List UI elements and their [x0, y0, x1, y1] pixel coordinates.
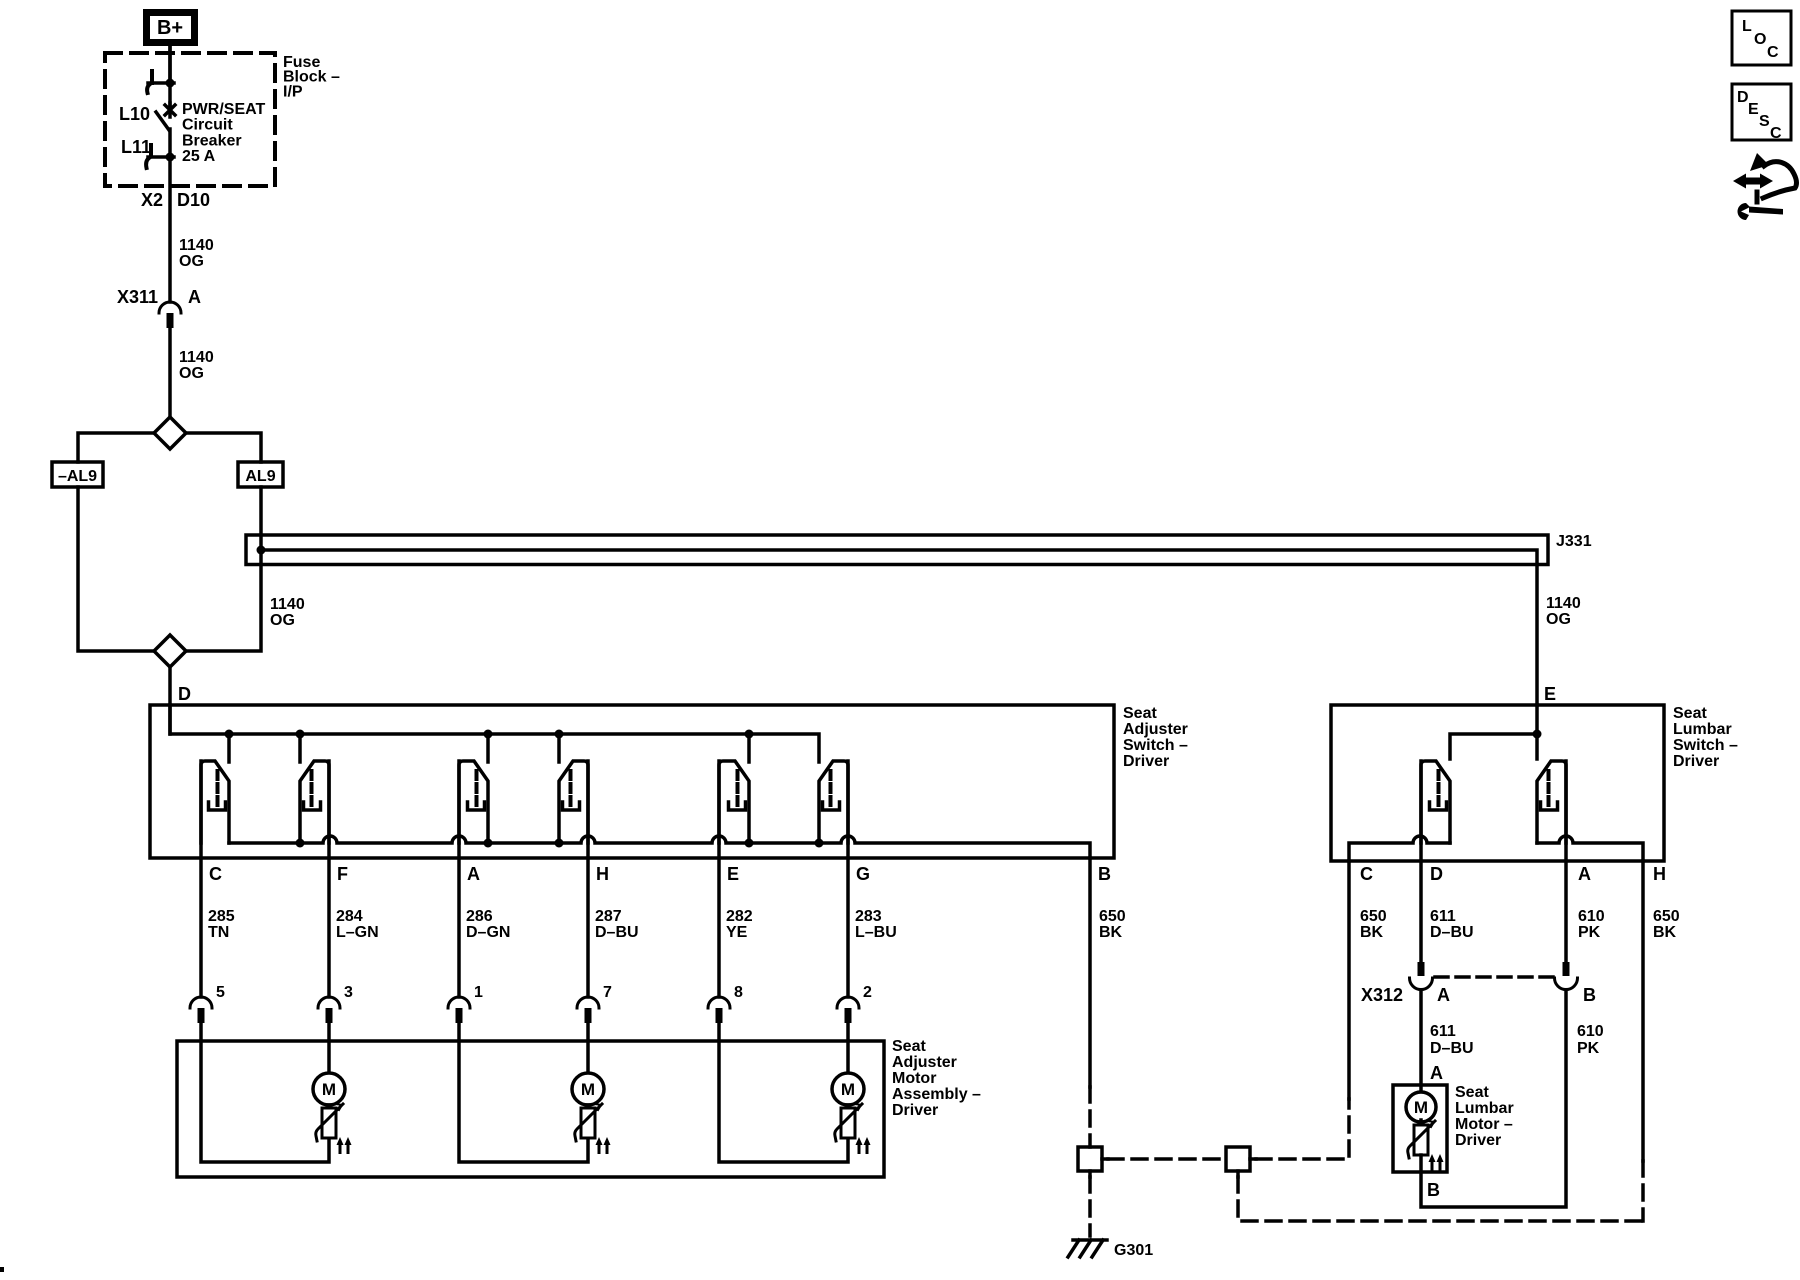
svg-text:YE: YE	[726, 924, 748, 941]
svg-text:D–GN: D–GN	[466, 924, 510, 941]
svg-text:D: D	[178, 684, 191, 704]
svg-text:PK: PK	[1577, 1040, 1600, 1057]
node on bus	[484, 730, 493, 739]
svg-text:C: C	[1360, 864, 1373, 884]
wire motor loop	[459, 1023, 588, 1162]
svg-text:611: 611	[1430, 908, 1456, 925]
svg-text:2: 2	[863, 984, 872, 1001]
svg-text:I/P: I/P	[283, 83, 303, 100]
feed wires inside lumbar switch	[1535, 705, 1539, 759]
wire motor loop	[719, 1023, 848, 1162]
terminal -AL9	[52, 462, 103, 487]
svg-text:B: B	[1098, 864, 1111, 884]
svg-text:PWR/SEAT: PWR/SEAT	[182, 101, 265, 118]
wire B+ to circuit breaker	[168, 46, 172, 83]
svg-text:L–BU: L–BU	[855, 924, 897, 941]
connector pin A / 1	[448, 997, 470, 1023]
seat adjuster motor assembly box	[177, 1041, 884, 1177]
svg-text:1: 1	[474, 984, 483, 1001]
svg-text:Driver: Driver	[1123, 753, 1169, 770]
seat lumbar switch box	[1331, 705, 1664, 861]
svg-text:650: 650	[1099, 908, 1126, 925]
wire lumbar pin A	[1564, 761, 1568, 962]
svg-text:Lumbar: Lumbar	[1673, 721, 1732, 738]
node on common wire	[555, 839, 564, 848]
switch feed stub	[557, 734, 561, 762]
svg-text:F: F	[337, 864, 348, 884]
wire diamond to AL9	[186, 433, 261, 462]
svg-text:H: H	[596, 864, 609, 884]
svg-text:D: D	[1737, 89, 1749, 106]
svg-text:L: L	[1742, 18, 1752, 35]
svg-text:TN: TN	[208, 924, 229, 941]
lumbar common wire to pin C	[1349, 836, 1450, 861]
wire breaker to X311	[168, 157, 172, 302]
svg-text:D–BU: D–BU	[1430, 924, 1474, 941]
svg-text:1140: 1140	[179, 349, 214, 366]
svg-text:BK: BK	[1099, 924, 1123, 941]
svg-text:E: E	[1544, 684, 1556, 704]
svg-text:C: C	[1767, 44, 1779, 61]
seat lumbar motor box	[1393, 1085, 1447, 1172]
dashed wire splice2 to lumbar C	[1256, 1099, 1349, 1159]
wire pin H	[586, 761, 590, 997]
wire 650 BK from pin B	[1088, 858, 1092, 1087]
page corner mark	[0, 1267, 4, 1272]
dashed connector line X312	[1435, 975, 1553, 979]
svg-text:M: M	[322, 1080, 336, 1099]
node on common wire	[815, 839, 824, 848]
svg-text:Driver: Driver	[1455, 1132, 1501, 1149]
svg-text:PK: PK	[1578, 924, 1601, 941]
svg-text:L–GN: L–GN	[336, 924, 379, 941]
svg-text:Seat: Seat	[1123, 705, 1157, 722]
dashed wire between splice blocks	[1108, 1157, 1226, 1161]
node on bus	[745, 730, 754, 739]
svg-text:Switch –: Switch –	[1673, 737, 1738, 754]
svg-text:A: A	[1578, 864, 1591, 884]
svg-text:Adjuster: Adjuster	[1123, 721, 1188, 738]
svg-text:E: E	[727, 864, 739, 884]
svg-text:C: C	[209, 864, 222, 884]
svg-text:Adjuster: Adjuster	[892, 1054, 957, 1071]
splice diamond bottom	[154, 635, 186, 667]
svg-text:Seat: Seat	[1455, 1084, 1489, 1101]
dashed 650 BK right	[1641, 1161, 1645, 1221]
svg-text:X312: X312	[1361, 985, 1403, 1005]
connector pin F / 3	[318, 997, 340, 1023]
splice diamond top	[154, 417, 186, 449]
svg-text:Lumbar: Lumbar	[1455, 1100, 1514, 1117]
motor M	[1406, 1092, 1436, 1122]
wire lumbar pin C 650 BK	[1347, 861, 1351, 1099]
circuit breaker PWR/SEAT 25A	[146, 46, 175, 168]
svg-text:A: A	[188, 287, 201, 307]
svg-text:OG: OG	[179, 253, 204, 270]
wire lumbar pin H 650 BK	[1641, 861, 1645, 1161]
switch lumbar A	[1537, 761, 1566, 843]
svg-text:A: A	[1430, 1063, 1443, 1083]
switch feed stub	[486, 734, 490, 762]
fuse block dashed box	[105, 53, 275, 186]
svg-text:283: 283	[855, 908, 882, 925]
switch lumbar D	[1421, 761, 1450, 843]
svg-text:BK: BK	[1360, 924, 1384, 941]
node on bus	[296, 730, 305, 739]
svg-text:25 A: 25 A	[182, 148, 216, 165]
svg-text:AL9: AL9	[245, 468, 275, 485]
wire pin F	[327, 761, 331, 997]
junction bus J331	[246, 535, 1548, 565]
svg-text:1140: 1140	[270, 596, 305, 613]
svg-text:Motor: Motor	[892, 1070, 936, 1087]
svg-text:B+: B+	[157, 17, 183, 39]
svg-text:A: A	[1437, 985, 1450, 1005]
svg-text:A: A	[467, 864, 480, 884]
lumbar common wire to pin H	[1537, 836, 1643, 861]
svg-text:D–BU: D–BU	[1430, 1040, 1474, 1057]
motor M	[313, 1073, 345, 1105]
svg-text:–AL9: –AL9	[58, 468, 97, 485]
svg-text:E: E	[1748, 101, 1759, 118]
svg-text:Circuit: Circuit	[182, 117, 233, 134]
wire lumbar motor B loop to X312 B	[1421, 991, 1566, 1207]
wire pin G	[846, 761, 850, 997]
svg-text:1140: 1140	[179, 237, 214, 254]
bus wire inside adjuster switch	[170, 705, 819, 762]
node splice at AL9 branch into J331	[257, 546, 266, 555]
svg-text:OG: OG	[179, 365, 204, 382]
svg-text:5: 5	[216, 984, 225, 1001]
wire X312 A to lumbar motor	[1419, 991, 1423, 1092]
svg-text:L11: L11	[121, 137, 151, 157]
svg-text:8: 8	[734, 984, 743, 1001]
wire inside J331	[261, 550, 1537, 705]
switch feed stub	[298, 734, 302, 762]
power feed B+	[147, 13, 195, 43]
common wire to pin B with hops	[229, 836, 1090, 858]
wire lumbar pin D	[1419, 761, 1423, 962]
svg-text:Driver: Driver	[1673, 753, 1719, 770]
connector pin C / 5	[190, 997, 212, 1023]
connector pin E / 8	[708, 997, 730, 1023]
ground G301	[1068, 1240, 1107, 1257]
switch A	[459, 761, 488, 843]
svg-text:D10: D10	[177, 190, 210, 210]
svg-text:282: 282	[726, 908, 753, 925]
icon arrows and wrench	[1733, 153, 1796, 220]
wire bottom splice to seat adjuster switch D	[168, 667, 172, 734]
dashed wire to splice block	[1088, 1087, 1092, 1147]
svg-text:B: B	[1583, 985, 1596, 1005]
svg-text:610: 610	[1578, 908, 1605, 925]
switch C	[201, 761, 229, 843]
wire X311 to splice	[168, 328, 172, 417]
wire -AL9 down to bottom splice	[78, 487, 154, 651]
svg-text:3: 3	[344, 984, 353, 1001]
svg-text:Seat: Seat	[892, 1038, 926, 1055]
node on common wire	[745, 839, 754, 848]
svg-text:M: M	[1414, 1098, 1428, 1117]
svg-text:X2: X2	[141, 190, 163, 210]
node on bus	[225, 730, 234, 739]
connector X312 A	[1410, 962, 1433, 990]
connector X311 A	[159, 302, 181, 328]
icon box DESC	[1732, 84, 1791, 142]
svg-text:610: 610	[1577, 1023, 1604, 1040]
svg-text:Switch –: Switch –	[1123, 737, 1188, 754]
icon box LOC	[1732, 11, 1791, 65]
switch E	[719, 761, 749, 843]
svg-text:D–BU: D–BU	[595, 924, 639, 941]
svg-text:286: 286	[466, 908, 493, 925]
motor M	[832, 1073, 864, 1105]
position sensor	[575, 1104, 611, 1154]
svg-text:S: S	[1759, 113, 1770, 130]
svg-text:M: M	[581, 1080, 595, 1099]
svg-text:Seat: Seat	[1673, 705, 1707, 722]
position sensor	[835, 1104, 871, 1154]
connector pin H / 7	[577, 997, 599, 1023]
wire AL9 down to bottom splice	[186, 487, 261, 651]
svg-text:OG: OG	[270, 612, 295, 629]
svg-text:O: O	[1754, 31, 1766, 48]
svg-text:285: 285	[208, 908, 235, 925]
wire diamond to -AL9	[78, 433, 154, 462]
svg-text:1140: 1140	[1546, 595, 1581, 612]
svg-text:Driver: Driver	[892, 1102, 938, 1119]
node on common wire	[296, 839, 305, 848]
node on common wire	[484, 839, 493, 848]
svg-text:B: B	[1427, 1180, 1440, 1200]
svg-text:BK: BK	[1653, 924, 1677, 941]
node on bus	[555, 730, 564, 739]
switch feed stub	[227, 734, 231, 762]
dashed wire splice2 down and right	[1238, 1177, 1643, 1221]
splice block 2	[1226, 1147, 1256, 1177]
connector pin G / 2	[837, 997, 859, 1023]
connector X312 B	[1555, 962, 1578, 990]
svg-text:284: 284	[336, 908, 363, 925]
svg-text:Assembly –: Assembly –	[892, 1086, 981, 1103]
svg-text:J331: J331	[1556, 533, 1592, 550]
switch H	[559, 761, 588, 843]
switch F	[300, 761, 329, 843]
wire motor loop	[201, 1023, 329, 1162]
motor M	[572, 1073, 604, 1105]
svg-text:X311: X311	[117, 287, 158, 307]
wire pin C	[199, 761, 203, 997]
svg-text:Breaker: Breaker	[182, 132, 242, 149]
wire to motor	[327, 1023, 331, 1073]
svg-text:650: 650	[1653, 908, 1680, 925]
wire to motor	[846, 1023, 850, 1073]
wire to motor	[586, 1023, 590, 1073]
svg-text:611: 611	[1430, 1023, 1456, 1040]
terminal AL9	[238, 462, 283, 487]
position sensor lumbar	[1408, 1121, 1444, 1171]
wire pin E	[717, 761, 721, 997]
svg-text:M: M	[841, 1080, 855, 1099]
svg-text:H: H	[1653, 864, 1666, 884]
svg-text:C: C	[1770, 125, 1782, 142]
svg-text:7: 7	[603, 984, 612, 1001]
svg-text:L10: L10	[119, 104, 150, 124]
switch feed stub	[747, 734, 751, 762]
svg-text:287: 287	[595, 908, 622, 925]
wire pin A	[457, 761, 461, 997]
node lumbar feed	[1533, 730, 1542, 739]
splice block 1	[1078, 1147, 1108, 1177]
svg-text:G: G	[856, 864, 870, 884]
svg-text:D: D	[1430, 864, 1443, 884]
seat adjuster switch box	[150, 705, 1114, 858]
svg-text:OG: OG	[1546, 611, 1571, 628]
svg-text:650: 650	[1360, 908, 1387, 925]
position sensor	[316, 1104, 352, 1154]
svg-text:Motor –: Motor –	[1455, 1116, 1513, 1133]
dashed wire splice1 to ground	[1088, 1177, 1092, 1236]
svg-text:G301: G301	[1114, 1242, 1153, 1259]
switch G	[819, 761, 848, 843]
